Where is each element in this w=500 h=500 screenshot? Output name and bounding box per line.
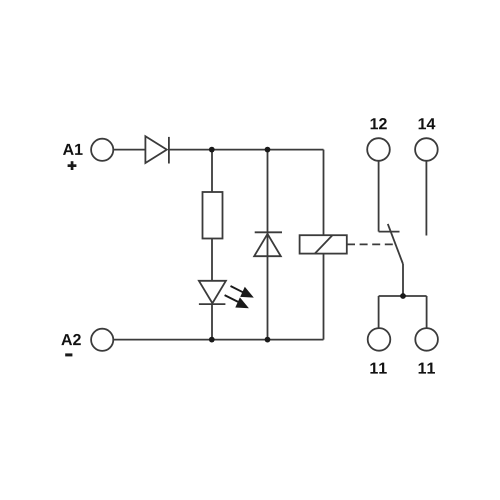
label A1: [63, 144, 83, 155]
node bottom right: [265, 337, 271, 343]
mechanical link (dashed): [347, 243, 396, 245]
wire A1 to diode: [114, 149, 145, 151]
wire to left 11: [378, 296, 380, 328]
wire LED to bottom rail: [211, 304, 213, 340]
LED: [199, 281, 226, 304]
terminal A2: [91, 329, 113, 351]
wire relay branch top: [323, 150, 325, 236]
wire to right 11: [426, 296, 428, 328]
label 14: [419, 118, 436, 129]
label A2: [61, 334, 80, 345]
node bottom left: [209, 337, 215, 343]
label +: [68, 161, 77, 170]
diode D1: [145, 136, 169, 163]
diode V1: [254, 232, 282, 256]
label -: [65, 353, 72, 356]
label 11 right: [419, 363, 435, 374]
terminal 11 right: [415, 328, 438, 351]
wire from terminal 14: [425, 161, 427, 236]
LED arrow 1: [231, 286, 254, 298]
switch lever: [388, 224, 403, 264]
wire lever to common: [402, 264, 404, 296]
bottom rail wire: [114, 339, 324, 341]
terminal 11 left: [368, 328, 391, 351]
common bar wire: [379, 295, 427, 297]
LED arrow 2: [225, 295, 249, 308]
resistor R1: [203, 192, 223, 239]
NC contact tick: [379, 231, 400, 233]
label 12: [371, 118, 387, 129]
label 11 left: [370, 363, 386, 374]
wire relay to bottom rail: [323, 254, 325, 340]
terminal 14: [415, 138, 438, 161]
wire resistor to LED: [211, 239, 213, 282]
terminal 12: [367, 138, 390, 161]
wire resistor branch top: [211, 150, 213, 192]
relay coil K1: [300, 235, 347, 253]
node top right: [265, 147, 271, 153]
terminal A1: [91, 139, 113, 161]
node common: [400, 293, 406, 299]
wire suppressor diode branch: [267, 150, 269, 340]
wire from terminal 12: [378, 161, 380, 232]
node top left: [209, 147, 215, 153]
wire top rail: [169, 149, 324, 151]
